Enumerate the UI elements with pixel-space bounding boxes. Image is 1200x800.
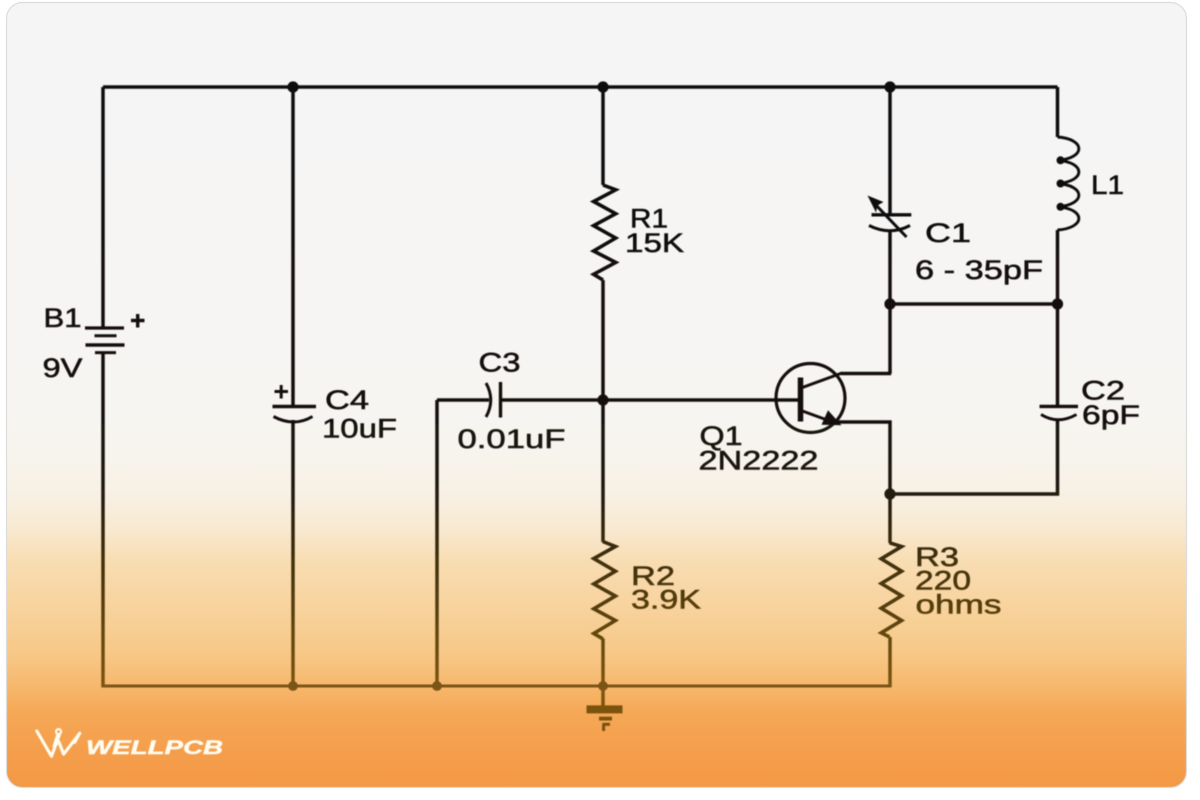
wire L1 bottom to C2 top bbox=[1056, 230, 1060, 406]
wire C1 branch upper bbox=[888, 87, 892, 215]
wire emitter horizontal and down bbox=[838, 422, 890, 494]
svg-text:C3: C3 bbox=[479, 348, 521, 378]
capacitor C3 bbox=[486, 382, 501, 418]
battery B1 bbox=[85, 314, 145, 353]
svg-text:L1: L1 bbox=[1091, 170, 1124, 200]
wire bottom rail bbox=[102, 684, 891, 687]
resistor R2 bbox=[594, 542, 616, 639]
svg-text:0.01uF: 0.01uF bbox=[458, 424, 566, 454]
wire R3 top lead bbox=[888, 494, 892, 543]
node top rail / R1 bbox=[597, 81, 608, 92]
svg-text:ohms: ohms bbox=[916, 590, 1002, 620]
wire C1 bottom to collector corner bbox=[888, 230, 892, 374]
node top rail / C1 bbox=[884, 81, 895, 92]
wire C3 branch vertical bbox=[435, 400, 439, 686]
svg-text:B1: B1 bbox=[44, 303, 82, 333]
node bottom rail / C3 bbox=[432, 681, 442, 691]
svg-text:15K: 15K bbox=[625, 228, 684, 258]
wire emitter node to C2 bottom bbox=[890, 420, 1058, 494]
wire right vertical top (L1 top lead) bbox=[1056, 87, 1060, 137]
transistor Q1 bbox=[776, 364, 845, 433]
node top rail / C4 bbox=[287, 81, 298, 92]
wire R1 bottom to R2 top (through base node) bbox=[601, 280, 605, 542]
resistor R1 bbox=[594, 185, 616, 280]
capacitor C2 bbox=[1040, 406, 1079, 419]
wire base horizontal bbox=[501, 398, 801, 402]
svg-text:3.9K: 3.9K bbox=[631, 585, 701, 615]
svg-text:6pF: 6pF bbox=[1082, 400, 1140, 430]
wire C3 left corner horizontal bbox=[437, 398, 489, 402]
wire C4 branch lower bbox=[291, 420, 295, 686]
node dots bbox=[287, 81, 1063, 690]
svg-text:9V: 9V bbox=[43, 353, 83, 383]
svg-text:10uF: 10uF bbox=[322, 414, 397, 444]
resistor R3 bbox=[881, 543, 901, 637]
ground bbox=[587, 709, 623, 731]
svg-text:C1: C1 bbox=[925, 218, 971, 248]
svg-text:WELLPCB: WELLPCB bbox=[86, 738, 223, 759]
wire R1 top lead bbox=[601, 87, 605, 185]
wire left vertical upper (battery top lead) bbox=[101, 87, 105, 328]
node emitter bbox=[884, 488, 895, 499]
node bottom rail / ground bbox=[598, 681, 608, 691]
wire R3 bottom lead bbox=[888, 637, 892, 687]
node C1 bottom bbox=[884, 298, 895, 309]
wire left vertical lower (battery bottom lead) bbox=[101, 352, 105, 687]
inductor L1 bbox=[1058, 137, 1079, 230]
node base bbox=[597, 394, 608, 405]
svg-text:C4: C4 bbox=[325, 385, 369, 415]
wire tank link horizontal bbox=[890, 302, 1058, 306]
wire top rail bbox=[103, 85, 1058, 89]
logo W icon bbox=[37, 729, 80, 756]
svg-text:2N2222: 2N2222 bbox=[699, 446, 819, 476]
wire C4 branch upper bbox=[291, 87, 295, 406]
wire collector horizontal bbox=[841, 372, 891, 376]
capacitor C4 bbox=[273, 385, 317, 422]
node L1 bottom / C2 top bbox=[1052, 298, 1063, 309]
svg-text:6 - 35pF: 6 - 35pF bbox=[915, 255, 1043, 285]
wire R2 bottom to ground stub bbox=[601, 639, 605, 708]
node bottom rail / C4 bbox=[288, 681, 298, 691]
variable capacitor C1 bbox=[869, 202, 911, 238]
